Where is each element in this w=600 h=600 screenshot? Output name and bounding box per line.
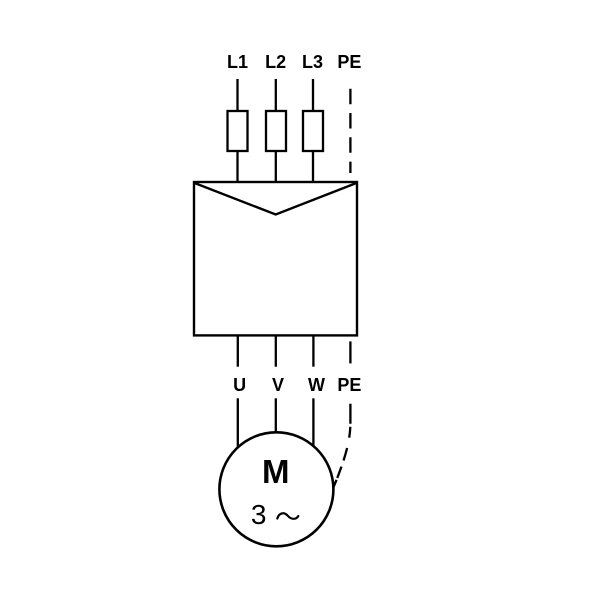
wire F3 to contactor [312,151,314,183]
svg-text:L2: L2 [265,52,286,72]
svg-text:U: U [233,375,246,395]
wire F2 to contactor [275,151,277,183]
motor M1 circle [219,432,333,546]
wire W to motor [312,398,314,447]
svg-text:PE: PE [337,52,361,72]
svg-text:M: M [262,453,290,490]
svg-text:V: V [272,375,284,395]
wire L1 to fuse [236,79,238,111]
wire V from contactor [275,336,277,367]
svg-text:W: W [308,375,325,395]
wire V to motor [275,398,277,432]
wire L2 to fuse [275,79,277,111]
motor AC tilde [277,513,298,519]
fuse F2 [266,111,286,151]
contactor chevron [195,183,356,214]
wire PE dashed top [349,89,351,173]
contactor box K1 [194,182,357,335]
wire PE dashed to motor [333,404,350,488]
svg-text:3: 3 [251,499,267,530]
wire L3 to fuse [312,79,314,111]
wire U from contactor [237,336,239,367]
fuse F3 [303,111,323,151]
svg-text:L1: L1 [227,52,248,72]
wire PE dash below contactor [349,341,351,363]
wire F1 to contactor [236,151,238,183]
wire U to motor [237,398,239,447]
fuse F1 [228,111,248,151]
wire W from contactor [312,336,314,367]
svg-text:L3: L3 [302,52,323,72]
svg-text:PE: PE [337,375,361,395]
